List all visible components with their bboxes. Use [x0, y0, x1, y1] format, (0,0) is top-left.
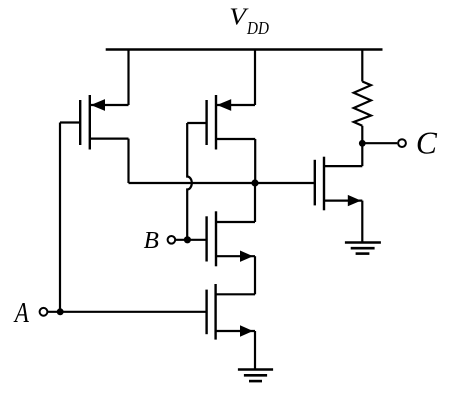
wire node C down to Q5 drain: [361, 143, 363, 166]
resistor R1: [354, 50, 371, 144]
VDD rail wire: [106, 48, 383, 51]
junction node A: [57, 308, 64, 315]
wire Q1 drain down to node Y: [127, 139, 129, 183]
wire Q2 drain down to node Y: [254, 139, 256, 183]
wire Q1 gate down to node A: [59, 123, 61, 312]
label VDD: [229, 3, 269, 38]
terminal circle input A: [40, 308, 48, 316]
terminal circle output C: [398, 139, 406, 147]
svg-text:B: B: [144, 227, 159, 254]
svg-text:DD: DD: [246, 18, 269, 38]
ground under Q4: [238, 370, 273, 382]
wire node Y down to Q3 drain: [254, 183, 256, 222]
wire Q2 gate down to node B with hop over node Y line: [187, 123, 192, 240]
wire node C to output terminal: [362, 142, 397, 144]
wire Q1 gate stub: [60, 121, 80, 123]
transistor Q4 (NMOS input A): [207, 284, 255, 340]
junction node Y: [251, 179, 258, 186]
wire input A to Q4 gate: [48, 311, 207, 313]
wire Q3 source to Q4 drain: [254, 256, 256, 294]
terminal circle input B: [168, 236, 176, 244]
wire VDD to Q1 source: [127, 50, 129, 106]
junction node B: [184, 236, 191, 243]
transistor Q5 (NMOS output): [315, 157, 363, 211]
wire Q4 source to ground: [254, 331, 256, 369]
junction node C: [359, 140, 366, 147]
wire VDD to Q2 source: [254, 50, 256, 106]
transistor Q1 (left PMOS load): [80, 95, 128, 150]
svg-text:C: C: [416, 125, 438, 160]
wire input B to Q3 gate: [176, 239, 207, 241]
wire Q2 gate stub: [187, 122, 206, 124]
wire Q5 source to ground: [361, 201, 363, 243]
node Y horizontal wire: [129, 182, 315, 184]
svg-text:A: A: [13, 297, 30, 329]
transistor Q3 (NMOS input B): [207, 211, 255, 266]
ground under Q5: [345, 243, 381, 254]
transistor Q2 (middle PMOS load): [207, 95, 256, 150]
